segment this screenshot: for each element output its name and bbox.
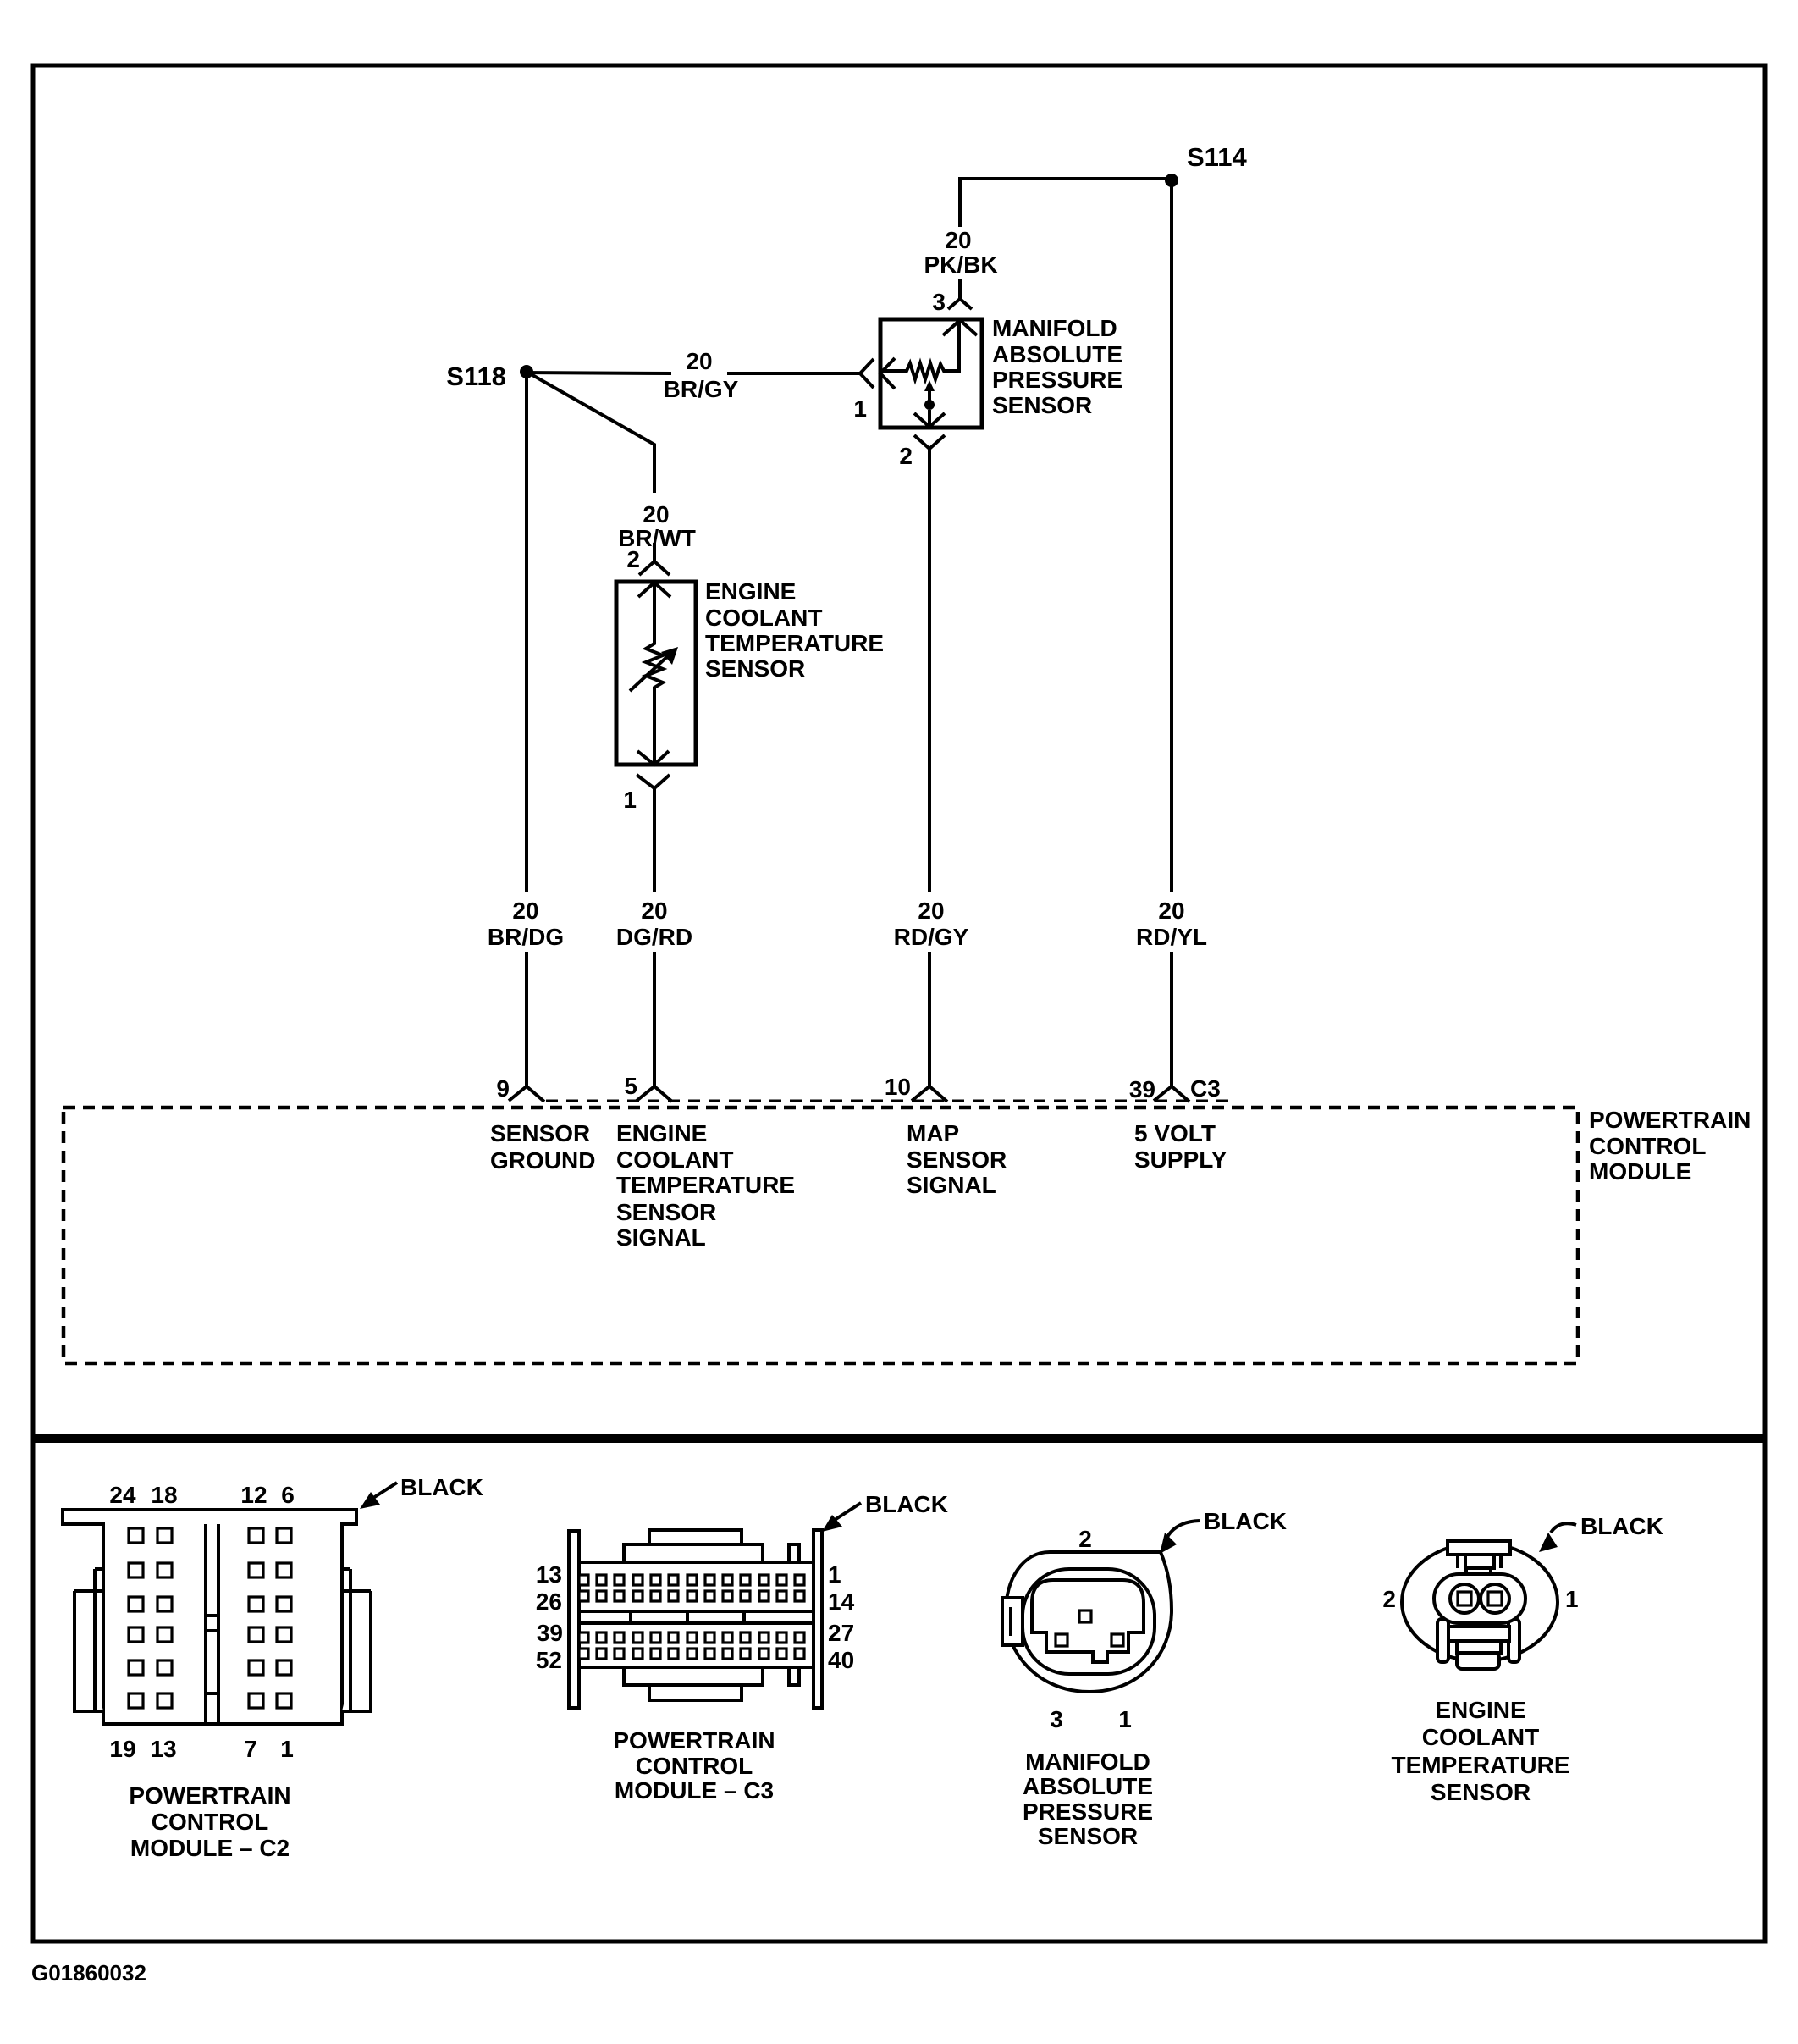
connector pin 2 of MAP sensor (899, 413, 945, 469)
svg-text:19: 19 (109, 1736, 135, 1762)
svg-text:13: 13 (536, 1561, 562, 1588)
label POWERTRAIN CONTROL MODULE (1589, 1107, 1751, 1185)
PCM pin 9 (496, 1075, 544, 1102)
svg-text:SENSOR: SENSOR (992, 392, 1092, 418)
svg-text:CONTROL: CONTROL (152, 1809, 268, 1835)
svg-text:40: 40 (828, 1647, 854, 1673)
svg-text:ABSOLUTE: ABSOLUTE (992, 341, 1122, 367)
svg-text:5: 5 (624, 1073, 637, 1099)
PCM pin 5 (624, 1073, 672, 1102)
svg-text:G01860032: G01860032 (31, 1960, 146, 1986)
svg-text:RD/GY: RD/GY (894, 924, 969, 950)
node S114 (1165, 142, 1247, 187)
ECT pin circles (1450, 1584, 1479, 1613)
C3 left end bar (569, 1531, 579, 1708)
MAP pin cavities (1079, 1610, 1091, 1622)
divider line between schematic and connector views (31, 1434, 1767, 1443)
svg-text:S118: S118 (446, 362, 506, 391)
C2 right wing (342, 1569, 371, 1711)
wiper arrow and junction dot inside MAP sensor (924, 380, 935, 427)
MAP sensor box (880, 319, 982, 428)
label MANIFOLD ABSOLUTE PRESSURE SENSOR (992, 315, 1122, 418)
svg-text:BLACK: BLACK (1580, 1513, 1663, 1539)
svg-text:SIGNAL: SIGNAL (907, 1172, 996, 1198)
ECT sensor box (616, 582, 696, 765)
C3 pin squares row 4 (579, 1649, 804, 1659)
svg-text:MAP: MAP (907, 1120, 959, 1146)
svg-text:20: 20 (641, 898, 667, 924)
node S118 (446, 362, 533, 391)
MAP key shape (1032, 1580, 1144, 1662)
wire label 20 PK/BK (924, 227, 997, 278)
PCM pin 39 connector C3 (1129, 1075, 1221, 1102)
connector pin 1 of ECT sensor (623, 751, 670, 813)
svg-text:CONTROL: CONTROL (1589, 1133, 1706, 1159)
resistor inside MAP sensor (880, 321, 959, 379)
svg-text:39: 39 (1129, 1076, 1155, 1102)
svg-text:1: 1 (853, 395, 867, 422)
label SENSOR GROUND (490, 1120, 595, 1174)
connector view: ECT sensor (1382, 1513, 1663, 1805)
svg-text:SENSOR: SENSOR (1038, 1823, 1138, 1849)
MAP left lock tab (1002, 1598, 1023, 1645)
MAP outer shell (1006, 1552, 1172, 1692)
svg-text:ENGINE: ENGINE (1435, 1697, 1525, 1723)
label 5 VOLT SUPPLY (1134, 1120, 1227, 1173)
svg-text:52: 52 (536, 1647, 562, 1673)
svg-text:26: 26 (536, 1588, 562, 1615)
wire 20 BR/DG from S118 down to PCM pin 9 (488, 372, 564, 1086)
svg-text:24: 24 (109, 1482, 136, 1508)
C2 pin squares right half (249, 1528, 291, 1708)
label ENGINE COOLANT TEMPERATURE SENSOR SIGNAL (616, 1120, 795, 1251)
svg-text:9: 9 (496, 1075, 510, 1102)
svg-text:S114: S114 (1187, 142, 1247, 172)
C2 body divider columns (206, 1524, 218, 1724)
svg-text:PRESSURE: PRESSURE (1023, 1798, 1153, 1825)
svg-text:MODULE – C2: MODULE – C2 (130, 1835, 290, 1861)
wire 20 RD/YL from S114 down to PCM pin 39 (1136, 180, 1207, 1086)
svg-text:PK/BK: PK/BK (924, 251, 997, 278)
svg-text:20: 20 (918, 898, 944, 924)
ECT bottom legs (1437, 1619, 1448, 1662)
svg-text:SENSOR: SENSOR (705, 655, 805, 682)
svg-text:C3: C3 (1190, 1075, 1221, 1102)
C3 right end bar (814, 1530, 822, 1708)
svg-text:BR/GY: BR/GY (664, 376, 739, 402)
wire 20 BR/GY from S118 to MAP pin 1 (527, 348, 860, 402)
svg-text:POWERTRAIN: POWERTRAIN (1589, 1107, 1751, 1133)
C2 left wing (74, 1569, 103, 1711)
svg-text:1: 1 (623, 787, 637, 813)
svg-text:POWERTRAIN: POWERTRAIN (613, 1727, 775, 1754)
MAP inner ring (1023, 1569, 1155, 1674)
svg-text:SIGNAL: SIGNAL (616, 1224, 706, 1251)
svg-text:2: 2 (899, 443, 913, 469)
svg-text:1: 1 (828, 1561, 841, 1588)
connector pin 2 of ECT sensor (626, 543, 670, 597)
svg-text:RD/YL: RD/YL (1136, 924, 1207, 950)
svg-text:12: 12 (240, 1482, 267, 1508)
svg-text:2: 2 (626, 546, 640, 572)
wire 20 BR/WT from S118 to ECT pin 2 (527, 372, 696, 551)
svg-text:SENSOR: SENSOR (616, 1199, 716, 1225)
PCM pin 10 (885, 1074, 947, 1102)
C3 middle rail (579, 1611, 814, 1623)
svg-text:BLACK: BLACK (865, 1491, 948, 1517)
svg-text:COOLANT: COOLANT (705, 605, 822, 631)
svg-text:BR/DG: BR/DG (488, 924, 564, 950)
svg-text:MODULE – C3: MODULE – C3 (615, 1777, 774, 1804)
svg-text:TEMPERATURE: TEMPERATURE (705, 630, 884, 656)
ECT pin face capsule (1434, 1574, 1525, 1623)
svg-text:1: 1 (1565, 1586, 1579, 1612)
svg-text:ENGINE: ENGINE (616, 1120, 707, 1146)
svg-text:SENSOR: SENSOR (1431, 1779, 1531, 1805)
label MAP SENSOR SIGNAL (907, 1120, 1007, 1198)
svg-text:1: 1 (1118, 1706, 1132, 1732)
svg-text:MODULE: MODULE (1589, 1158, 1691, 1185)
C3 pin squares row 3 (579, 1632, 804, 1643)
connector pin 3 of MAP sensor (932, 279, 977, 335)
C3 pin squares row 2 (579, 1591, 804, 1601)
svg-text:27: 27 (828, 1620, 854, 1646)
svg-text:2: 2 (1382, 1586, 1396, 1612)
svg-text:DG/RD: DG/RD (616, 924, 692, 950)
svg-text:3: 3 (1050, 1706, 1063, 1732)
svg-text:ENGINE: ENGINE (705, 578, 796, 605)
svg-text:14: 14 (828, 1588, 855, 1615)
C3 bottom tabs (624, 1667, 763, 1685)
svg-text:COOLANT: COOLANT (616, 1146, 733, 1173)
svg-text:6: 6 (281, 1482, 295, 1508)
svg-text:TEMPERATURE: TEMPERATURE (1391, 1752, 1569, 1778)
svg-text:PRESSURE: PRESSURE (992, 367, 1122, 393)
svg-text:20: 20 (945, 227, 971, 253)
connector view: MAP sensor (1002, 1508, 1287, 1849)
C2 top bar (63, 1510, 356, 1724)
svg-text:CONTROL: CONTROL (636, 1753, 753, 1779)
label ENGINE COOLANT TEMPERATURE SENSOR (705, 578, 884, 682)
svg-text:SENSOR: SENSOR (907, 1146, 1007, 1173)
svg-text:GROUND: GROUND (490, 1147, 595, 1174)
svg-text:18: 18 (151, 1482, 177, 1508)
connector pin 1 of MAP sensor (853, 358, 895, 422)
wire 20 RD/GY from MAP pin 2 down to PCM pin 10 (894, 449, 969, 1086)
svg-text:ABSOLUTE: ABSOLUTE (1023, 1773, 1153, 1799)
ECT outer shell (1402, 1543, 1558, 1661)
svg-text:5 VOLT: 5 VOLT (1134, 1120, 1216, 1146)
svg-text:20: 20 (1158, 898, 1184, 924)
svg-text:MANIFOLD: MANIFOLD (1025, 1748, 1150, 1775)
svg-text:SUPPLY: SUPPLY (1134, 1146, 1227, 1173)
svg-text:BLACK: BLACK (1204, 1508, 1287, 1534)
svg-text:10: 10 (885, 1074, 911, 1100)
connector view: PCM C2 (63, 1474, 483, 1861)
svg-text:20: 20 (686, 348, 712, 374)
svg-text:7: 7 (244, 1736, 257, 1762)
svg-text:2: 2 (1078, 1526, 1092, 1552)
svg-text:TEMPERATURE: TEMPERATURE (616, 1172, 795, 1198)
C3 pin squares row 1 (579, 1575, 804, 1585)
inner dashed segment along pin row (546, 1100, 1229, 1102)
wire 20 DG/RD from ECT pin 1 down to PCM pin 5 (616, 788, 692, 1086)
PCM dashed box (Powertrain Control Module) (63, 1108, 1578, 1363)
svg-text:20: 20 (512, 898, 538, 924)
ECT top tab (1448, 1541, 1510, 1555)
svg-text:13: 13 (150, 1736, 176, 1762)
svg-text:POWERTRAIN: POWERTRAIN (129, 1782, 290, 1809)
ECT bottom tabs (1448, 1627, 1509, 1641)
svg-text:MANIFOLD: MANIFOLD (992, 315, 1117, 341)
C2 pin squares left half (129, 1528, 172, 1708)
svg-text:SENSOR: SENSOR (490, 1120, 590, 1146)
svg-text:39: 39 (537, 1620, 563, 1646)
connector view: PCM C3 (536, 1491, 948, 1804)
svg-text:20: 20 (643, 501, 669, 528)
svg-text:3: 3 (932, 289, 946, 315)
C3 body (579, 1562, 814, 1667)
svg-text:BLACK: BLACK (400, 1474, 483, 1500)
svg-text:1: 1 (280, 1736, 294, 1762)
C3 top tabs (624, 1544, 763, 1562)
wire from S114 to MAP pin 3 drop (960, 179, 1172, 227)
svg-text:COOLANT: COOLANT (1422, 1724, 1539, 1750)
thermistor inside ECT sensor (630, 583, 678, 763)
